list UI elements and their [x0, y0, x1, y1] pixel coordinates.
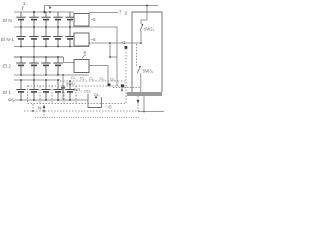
svg-text:El N-1: El N-1 — [1, 37, 14, 42]
svg-text:~2: ~2 — [121, 40, 127, 45]
svg-text:~5: ~5 — [91, 17, 97, 22]
svg-text:2: 2 — [125, 11, 128, 16]
svg-text:SW2₁: SW2₁ — [144, 27, 155, 32]
svg-text:Cl₁: Cl₁ — [110, 78, 115, 82]
svg-text:~5: ~5 — [107, 105, 113, 110]
svg-text:D1₁: D1₁ — [94, 93, 101, 97]
svg-text:Cl₁,: Cl₁, — [80, 77, 86, 81]
svg-text:Cl₁,: Cl₁, — [71, 76, 77, 80]
svg-text:El 1: El 1 — [3, 90, 11, 95]
svg-text:El N: El N — [3, 18, 12, 23]
svg-text:Cl₁,: Cl₁, — [100, 77, 106, 81]
svg-text:Φl₁: Φl₁ — [8, 98, 15, 103]
svg-text:~5: ~5 — [91, 37, 97, 42]
svg-text:D1l₂: D1l₂ — [84, 90, 91, 94]
svg-text:1: 1 — [23, 1, 26, 6]
svg-text:N: N — [38, 106, 41, 111]
svg-text:El 2: El 2 — [3, 64, 11, 69]
svg-text:Cl₁,: Cl₁, — [89, 77, 95, 81]
svg-text:SW3₁: SW3₁ — [143, 69, 154, 74]
svg-text:7: 7 — [119, 10, 122, 15]
svg-text:SW1₁: SW1₁ — [73, 88, 83, 92]
svg-text:SW1l: SW1l — [66, 82, 75, 86]
